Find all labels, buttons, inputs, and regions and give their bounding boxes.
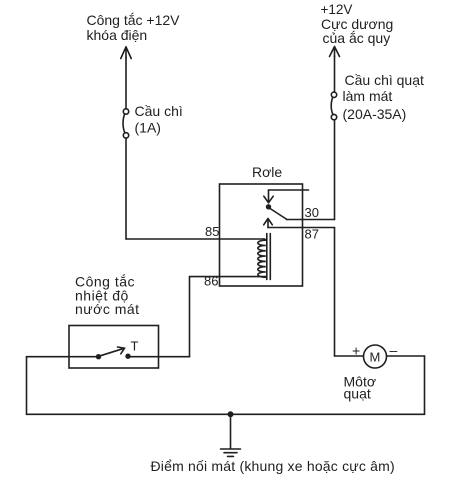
wire thermo right xyxy=(129,356,190,358)
wire 86 horizontal xyxy=(190,276,267,278)
label: minus xyxy=(390,342,398,358)
thermo switch box xyxy=(69,326,159,369)
relay pin30 internal lead xyxy=(269,189,309,191)
fuse F2 top terminal xyxy=(331,92,336,97)
wire ignition vertical lower xyxy=(125,138,127,239)
wire motor return horizontal xyxy=(387,355,425,357)
arrow to ignition switch xyxy=(121,47,131,59)
label: Moto quat xyxy=(344,374,377,402)
svg-text:+: + xyxy=(352,343,360,359)
wire 85 horizontal xyxy=(126,238,264,240)
svg-text:(1A): (1A) xyxy=(135,120,161,136)
arrow to battery positive xyxy=(330,47,340,58)
label: Cau chi quat lam mat (20A-35A) xyxy=(343,72,424,122)
label: Cong tac +12V khoa dien xyxy=(87,12,181,43)
thermo switch right node xyxy=(126,354,130,358)
ground stub wire xyxy=(230,414,232,449)
svg-text:+12V: +12V xyxy=(321,2,353,17)
wire ignition vertical upper xyxy=(125,57,127,109)
ground symbol xyxy=(221,449,241,456)
svg-text:Điểm nối mát (khung xe hoặc cự: Điểm nối mát (khung xe hoặc cực âm) xyxy=(151,458,395,474)
label: 86 xyxy=(204,274,218,289)
svg-text:M: M xyxy=(370,350,381,365)
relay core lines xyxy=(267,234,271,280)
wire 86 vertical xyxy=(189,277,191,357)
label: 87 xyxy=(305,227,319,242)
relay coil L1 xyxy=(258,239,266,277)
thermo switch left node xyxy=(97,355,101,359)
label: Diem noi mat xyxy=(151,458,395,474)
wire motor return vertical xyxy=(424,356,426,414)
label: 85 xyxy=(205,224,219,239)
relay box xyxy=(220,184,303,286)
label: Role xyxy=(252,164,282,180)
wire 87 horizontal xyxy=(268,227,335,229)
svg-text:khóa điện: khóa điện xyxy=(87,27,148,43)
wire battery vertical upper xyxy=(334,56,336,92)
wire bottom ground bus xyxy=(27,413,425,415)
fuse F2 element xyxy=(331,97,333,114)
ground junction node xyxy=(228,412,232,416)
fuse F2 bottom terminal xyxy=(331,114,336,119)
motor M1 circle xyxy=(364,345,387,368)
thermo switch blade with arrow xyxy=(99,347,125,356)
wire battery vertical lower xyxy=(334,120,336,220)
relay armature blade xyxy=(269,208,287,220)
fuse F1 top terminal xyxy=(123,109,128,114)
svg-text:nước mát: nước mát xyxy=(75,301,140,317)
relay pivot node xyxy=(267,205,271,209)
fuse F1 element xyxy=(123,114,125,133)
svg-text:Công tắc +12V: Công tắc +12V xyxy=(87,12,181,28)
svg-text:T: T xyxy=(131,339,139,354)
label: +12V Cuc duong cua ac quy xyxy=(321,2,394,46)
svg-text:87: 87 xyxy=(305,227,319,242)
relay contact 87 up arrow xyxy=(264,219,273,228)
svg-text:Rơle: Rơle xyxy=(252,164,282,180)
label: Cau chi (1A) xyxy=(135,103,183,136)
fuse F1 bottom terminal xyxy=(123,133,128,138)
wire thermo left xyxy=(27,356,99,358)
wire motor feed xyxy=(335,355,364,357)
svg-text:Cầu chì: Cầu chì xyxy=(135,103,183,119)
label: Cong tac nhiet do nuoc mat xyxy=(75,274,140,318)
wire 30 horizontal xyxy=(287,219,335,221)
label: T xyxy=(131,339,139,354)
svg-text:của ắc quy: của ắc quy xyxy=(323,30,391,46)
svg-text:(20A-35A): (20A-35A) xyxy=(343,106,407,122)
label: plus xyxy=(352,343,360,359)
wire left riser xyxy=(26,357,28,415)
svg-text:Cầu chì quạt: Cầu chì quạt xyxy=(345,72,424,88)
svg-text:86: 86 xyxy=(204,274,218,289)
svg-text:làm mát: làm mát xyxy=(343,88,393,104)
svg-text:30: 30 xyxy=(305,205,319,220)
svg-text:85: 85 xyxy=(205,224,219,239)
svg-text:quạt: quạt xyxy=(344,386,371,402)
wire 87 vertical xyxy=(334,228,336,357)
relay armature down arrow xyxy=(264,190,273,203)
label: 30 xyxy=(305,205,319,220)
label: M xyxy=(370,350,381,365)
